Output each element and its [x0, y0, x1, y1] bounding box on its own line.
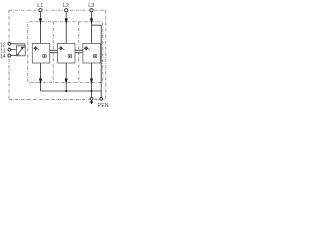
svg-text:L1: L1: [37, 3, 43, 9]
svg-text:14: 14: [0, 54, 6, 60]
svg-text:L2: L2: [63, 3, 69, 9]
svg-text:PEN: PEN: [98, 103, 109, 109]
svg-text:L3: L3: [88, 3, 94, 9]
